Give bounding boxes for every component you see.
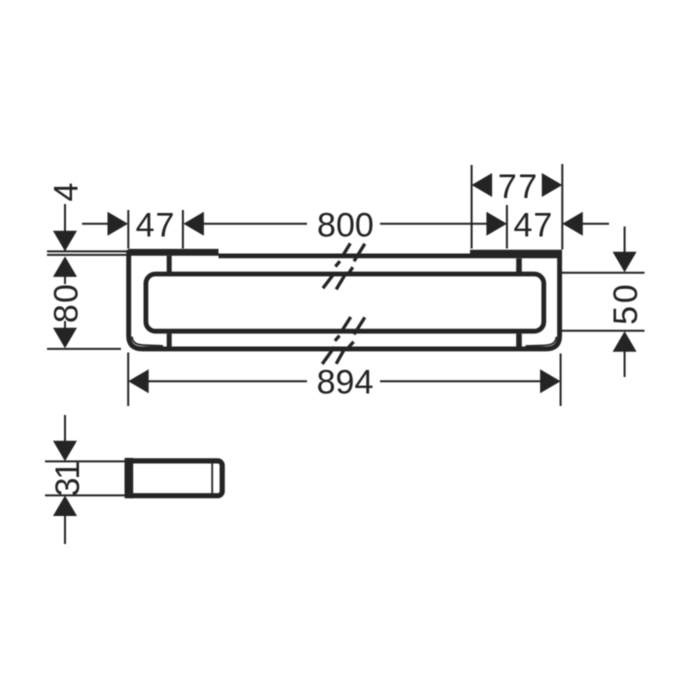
- svg-text:31: 31: [49, 462, 87, 497]
- dimension 31 (side view depth, rotated label): [45, 415, 129, 544]
- svg-text:80: 80: [47, 283, 85, 323]
- svg-text:50: 50: [607, 282, 645, 325]
- towel bar (rounded rectangle): [146, 274, 544, 331]
- body outline (outer cover with rounded bottom corners): [129, 250, 560, 349]
- dimension 47 left: [82, 210, 183, 249]
- side view: wall plate (thick left bar): [125, 458, 134, 498]
- seam curve bottom-left corner: [132, 337, 163, 346]
- seam curve bottom-right corner: [526, 337, 557, 346]
- left support arm: [167, 256, 172, 272]
- dimension 800: [183, 212, 507, 236]
- dimension 50 (right, rotated label): [562, 227, 645, 378]
- dimension 47 right: [507, 164, 609, 250]
- svg-text:47: 47: [513, 207, 553, 245]
- dimension 80 (height, left, rotated label): [47, 274, 121, 349]
- right support arm: [516, 258, 522, 272]
- svg-text:800: 800: [317, 207, 374, 245]
- svg-text:4: 4: [48, 183, 86, 202]
- dimension 4 (plate thickness, top left, rotated label): [53, 204, 77, 277]
- svg-text:77: 77: [498, 168, 539, 206]
- side view: outer profile: [127, 461, 222, 496]
- side view: seam line near right end: [211, 461, 213, 496]
- mounting plate top bar (right thick section): [470, 250, 562, 259]
- mounting plate top bar (left thick section): [128, 249, 219, 256]
- svg-text:894: 894: [317, 364, 374, 402]
- wall plate edge (thin double line, top left): [47, 251, 130, 255]
- mounting plate top bar (middle thin section): [219, 254, 471, 259]
- break mark lower (double slash): [322, 317, 365, 364]
- dimension 77: [472, 165, 563, 249]
- break mark upper (double slash): [323, 243, 365, 289]
- dimension 894 (overall width, bottom): [128, 353, 560, 407]
- svg-text:47: 47: [136, 207, 176, 245]
